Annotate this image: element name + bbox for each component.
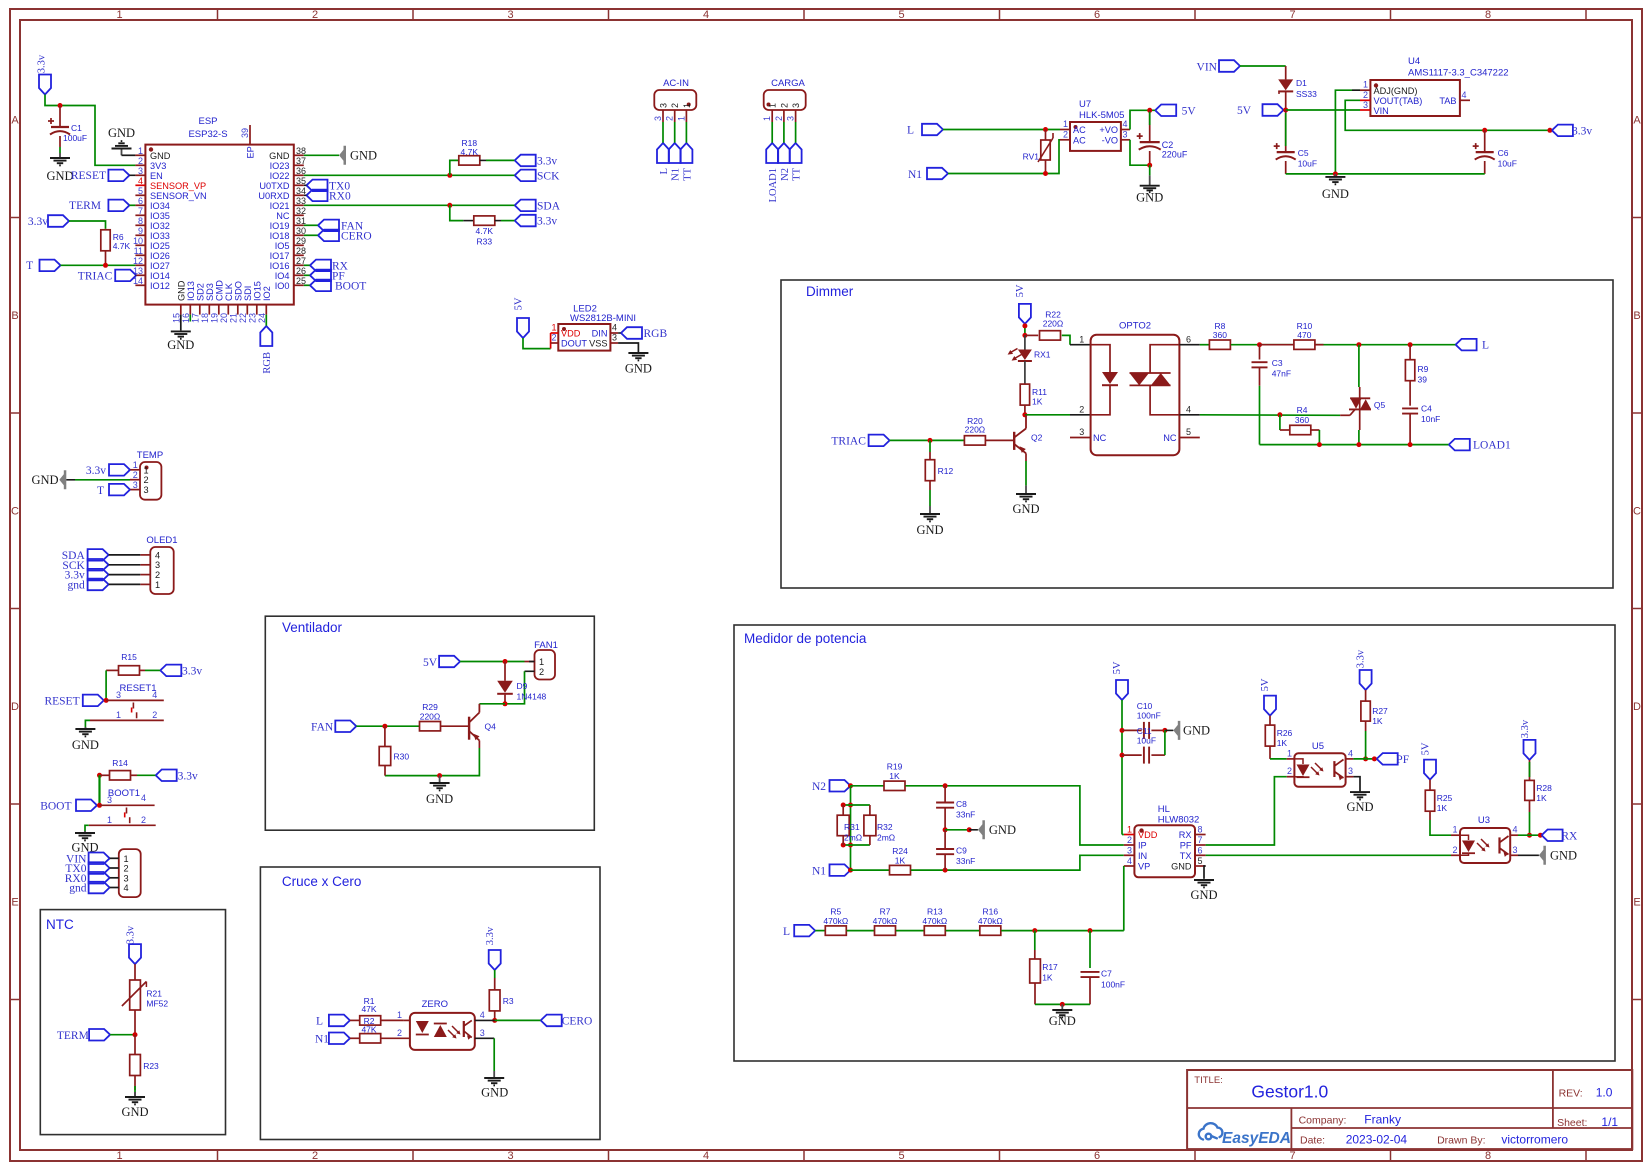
transistor Q4 NPN <box>441 725 469 727</box>
node junction <box>1120 753 1125 758</box>
svg-text:R17: R17 <box>1042 962 1058 972</box>
resistor R24 1K <box>890 865 911 874</box>
svg-text:4.7K: 4.7K <box>461 147 479 157</box>
svg-text:IO35: IO35 <box>150 211 170 221</box>
svg-text:OPTO2: OPTO2 <box>1119 321 1151 332</box>
section box Ventilador <box>265 616 594 830</box>
svg-text:17: 17 <box>190 313 200 323</box>
svg-text:NC: NC <box>1093 433 1107 443</box>
wire SDA <box>304 204 515 206</box>
wire <box>110 1034 135 1036</box>
svg-text:3: 3 <box>107 795 112 805</box>
svg-text:35: 35 <box>296 176 306 186</box>
ESP pin 37 IO23 <box>294 164 304 166</box>
svg-text:RX1: RX1 <box>1034 350 1051 360</box>
section box Cruce x Cero <box>260 867 600 1140</box>
svg-text:4.7K: 4.7K <box>476 226 494 236</box>
svg-text:VSS: VSS <box>589 339 607 349</box>
svg-text:U4: U4 <box>1408 56 1420 67</box>
svg-text:ESP: ESP <box>198 116 217 127</box>
node junction <box>848 783 853 788</box>
svg-text:D1: D1 <box>1296 78 1307 88</box>
svg-text:AC-IN: AC-IN <box>663 78 689 89</box>
svg-text:TERM: TERM <box>69 200 101 212</box>
svg-text:33nF: 33nF <box>956 810 975 820</box>
svg-text:SDI: SDI <box>243 286 253 301</box>
ESP pin 22 SDI <box>246 305 248 315</box>
svg-text:1: 1 <box>397 1010 402 1020</box>
svg-text:3.3v: 3.3v <box>86 465 106 477</box>
svg-text:23: 23 <box>247 313 257 323</box>
svg-text:TRIAC: TRIAC <box>78 270 113 282</box>
node junction <box>1283 108 1288 113</box>
node junction <box>928 438 933 443</box>
svg-text:47K: 47K <box>361 1004 376 1014</box>
svg-text:2mΩ: 2mΩ <box>844 833 862 843</box>
svg-text:3.3v: 3.3v <box>28 216 48 228</box>
wire <box>1353 758 1374 760</box>
svg-text:U3: U3 <box>1478 815 1490 826</box>
U5 internal LED <box>1294 759 1303 764</box>
OLED1 pin 2 3.3v <box>140 574 150 576</box>
node junction <box>1277 412 1282 417</box>
node junction <box>1120 728 1125 733</box>
svg-text:1K: 1K <box>1536 793 1547 803</box>
net flag CERO <box>541 1015 562 1027</box>
svg-text:7: 7 <box>138 206 143 216</box>
svg-text:2: 2 <box>138 156 143 166</box>
svg-text:100uF: 100uF <box>63 133 87 143</box>
svg-text:GND: GND <box>46 169 73 183</box>
power flag 3.3v <box>1552 125 1573 137</box>
svg-text:4: 4 <box>141 793 146 803</box>
resistor R28 1K <box>1529 760 1531 781</box>
svg-text:3: 3 <box>138 166 143 176</box>
wire <box>851 869 890 871</box>
svg-text:GND: GND <box>481 1086 508 1100</box>
ESP pin 21 SDO <box>237 305 239 315</box>
svg-text:1: 1 <box>124 854 129 864</box>
power flag RGB <box>260 326 272 346</box>
svg-text:R26: R26 <box>1277 728 1293 738</box>
svg-text:Medidor de potencia: Medidor de potencia <box>744 631 867 646</box>
power flag 3.3v at R27 <box>1360 670 1372 690</box>
wire <box>1025 453 1027 461</box>
svg-text:1K: 1K <box>1277 738 1288 748</box>
U5 pin 4 <box>1346 758 1354 760</box>
svg-text:1: 1 <box>1079 335 1084 345</box>
node junction <box>104 698 109 703</box>
HL pin 2 IP <box>1124 844 1135 846</box>
svg-text:5: 5 <box>898 9 904 21</box>
power flag 5V <box>517 318 529 338</box>
svg-text:3: 3 <box>507 9 513 21</box>
svg-text:2: 2 <box>670 103 680 108</box>
net flag N1 <box>669 143 681 163</box>
svg-text:C11: C11 <box>1137 726 1152 736</box>
HL pin 7 PF <box>1195 844 1206 846</box>
svg-text:3: 3 <box>1513 845 1518 855</box>
svg-text:5V: 5V <box>514 297 525 310</box>
svg-text:CARGA: CARGA <box>771 78 805 89</box>
svg-text:470kΩ: 470kΩ <box>873 916 898 926</box>
capacitor C1 <box>59 106 61 128</box>
U7 pin 3 -VO <box>1121 139 1130 141</box>
FAN1 pin 1 <box>525 661 535 663</box>
OLED1 pin 1 gnd <box>140 583 150 585</box>
svg-text:6: 6 <box>1186 335 1191 345</box>
svg-text:PF: PF <box>1180 841 1192 851</box>
U5 pin 1 <box>1287 758 1295 760</box>
svg-text:DOUT: DOUT <box>561 339 587 349</box>
ground flag GND gray <box>1173 721 1180 740</box>
svg-text:3: 3 <box>155 560 160 570</box>
triac Q5 <box>1340 414 1350 416</box>
svg-text:4: 4 <box>1513 825 1518 835</box>
power flag 5V at R26 <box>1264 696 1276 716</box>
U3 pin3 ground flag <box>1518 854 1539 856</box>
svg-text:RX: RX <box>1561 830 1578 842</box>
svg-text:4.7K: 4.7K <box>113 241 131 251</box>
wire <box>1121 700 1123 835</box>
svg-text:5V: 5V <box>1015 284 1026 297</box>
node junction <box>1408 342 1413 347</box>
svg-text:RESET: RESET <box>44 695 79 707</box>
node junction <box>1333 171 1338 176</box>
U7 pin 4 +VO <box>1121 129 1130 131</box>
svg-text:E: E <box>11 897 18 909</box>
LED2 pin 3 VSS <box>610 342 618 344</box>
svg-text:3.3v: 3.3v <box>126 925 137 944</box>
resistor R2 47K <box>350 1019 360 1021</box>
svg-text:AC: AC <box>1073 125 1086 135</box>
svg-text:5V: 5V <box>1260 678 1271 691</box>
svg-text:3: 3 <box>1363 100 1368 110</box>
svg-text:2: 2 <box>152 710 157 720</box>
svg-text:R19: R19 <box>887 762 903 772</box>
svg-text:2: 2 <box>665 116 675 121</box>
svg-text:GND: GND <box>269 151 290 161</box>
transistor Q2 NPN <box>1013 432 1015 450</box>
node junction <box>382 724 387 729</box>
svg-text:N2: N2 <box>780 168 791 181</box>
wire VOUT to 3.3v rail <box>1345 100 1550 130</box>
svg-text:4: 4 <box>612 323 617 333</box>
svg-text:AC: AC <box>1073 135 1086 145</box>
net flag L <box>1456 339 1477 351</box>
svg-text:GND: GND <box>426 792 453 806</box>
resistor R26 1K <box>1269 716 1271 726</box>
svg-text:1: 1 <box>144 465 149 475</box>
svg-text:R30: R30 <box>394 752 410 762</box>
svg-text:IO22: IO22 <box>270 171 290 181</box>
resistor R8 360 <box>1209 340 1230 349</box>
svg-text:R28: R28 <box>1536 783 1552 793</box>
svg-text:4: 4 <box>703 1150 709 1162</box>
svg-text:470kΩ: 470kΩ <box>922 916 947 926</box>
svg-text:100nF: 100nF <box>1101 980 1125 990</box>
svg-text:GND: GND <box>1136 191 1163 205</box>
resistor R12 <box>929 440 931 452</box>
svg-text:TRIAC: TRIAC <box>831 436 866 448</box>
svg-text:Cruce x Cero: Cruce x Cero <box>282 874 362 889</box>
svg-text:R24: R24 <box>892 846 908 856</box>
svg-text:2: 2 <box>779 103 789 108</box>
svg-text:IO15: IO15 <box>252 281 262 301</box>
TEMP pin 3 <box>130 489 140 491</box>
svg-text:30: 30 <box>296 226 306 236</box>
svg-text:360: 360 <box>1295 415 1309 425</box>
svg-text:2: 2 <box>124 864 129 874</box>
ground <box>134 1092 136 1097</box>
node junction <box>1408 442 1413 447</box>
svg-text:IO14: IO14 <box>150 271 170 281</box>
svg-text:5: 5 <box>1198 856 1203 866</box>
ESP pin 33 IO21 <box>294 204 304 206</box>
wire <box>304 154 339 156</box>
section box Medidor de potencia <box>734 625 1615 1061</box>
wire <box>851 785 884 787</box>
svg-text:39: 39 <box>1418 375 1428 385</box>
svg-text:IO21: IO21 <box>270 201 290 211</box>
svg-text:IO5: IO5 <box>275 241 290 251</box>
svg-text:REV:: REV: <box>1559 1088 1583 1100</box>
svg-text:34: 34 <box>296 186 306 196</box>
svg-text:7: 7 <box>1289 9 1295 21</box>
U3 pin 4 <box>1510 834 1518 836</box>
svg-text:IO23: IO23 <box>270 161 290 171</box>
wire <box>943 129 1060 131</box>
svg-text:SDO: SDO <box>233 281 243 301</box>
svg-text:3.3v: 3.3v <box>1356 649 1367 668</box>
ground <box>1061 1004 1063 1008</box>
svg-text:8: 8 <box>138 216 143 226</box>
svg-text:L: L <box>907 125 914 137</box>
svg-text:R33: R33 <box>477 237 493 247</box>
svg-text:GND: GND <box>121 1105 148 1119</box>
svg-text:3.3v: 3.3v <box>37 54 48 73</box>
power flag 3.3v <box>515 155 536 167</box>
svg-text:39: 39 <box>240 128 250 138</box>
svg-text:R32: R32 <box>877 822 893 832</box>
ESP pin 36 IO22 <box>294 174 304 176</box>
svg-text:N1: N1 <box>671 168 682 181</box>
svg-text:SD2: SD2 <box>195 283 205 301</box>
svg-text:GND: GND <box>32 473 59 487</box>
ESP pin 19 CMD <box>218 305 220 315</box>
svg-text:IP: IP <box>1138 841 1147 851</box>
ground <box>1334 174 1336 177</box>
svg-text:EN: EN <box>150 171 163 181</box>
svg-text:GND: GND <box>1183 724 1210 738</box>
svg-text:6: 6 <box>1094 9 1100 21</box>
wire PF <box>1206 777 1287 845</box>
node junction <box>447 173 452 178</box>
HL pin 6 TX <box>1195 854 1206 856</box>
svg-text:GND: GND <box>625 362 652 376</box>
svg-text:TT: TT <box>792 167 803 180</box>
svg-text:2: 2 <box>144 475 149 485</box>
svg-text:3V3: 3V3 <box>150 161 166 171</box>
svg-text:R11: R11 <box>1032 387 1047 397</box>
node junction <box>1317 442 1322 447</box>
svg-text:3: 3 <box>144 485 149 495</box>
U7 pin 1 AC <box>1060 129 1070 131</box>
svg-text:TEMP: TEMP <box>137 450 163 461</box>
svg-text:33nF: 33nF <box>956 856 975 866</box>
ground <box>1149 165 1151 175</box>
svg-text:3: 3 <box>507 1150 513 1162</box>
svg-text:220Ω: 220Ω <box>965 425 986 435</box>
node junction <box>1257 342 1262 347</box>
svg-text:CERO: CERO <box>562 1015 593 1027</box>
wire <box>890 439 965 441</box>
svg-text:IO19: IO19 <box>270 221 290 231</box>
svg-text:LOAD1: LOAD1 <box>768 168 779 202</box>
svg-text:C7: C7 <box>1101 969 1112 979</box>
U3 pin 3 <box>1510 854 1518 856</box>
TEMP pin 1 <box>130 469 140 471</box>
net flag FAN <box>304 224 318 226</box>
svg-text:GND: GND <box>1049 1014 1076 1028</box>
svg-text:R9: R9 <box>1418 364 1429 374</box>
svg-text:2: 2 <box>774 116 784 121</box>
U5 pin3 ground <box>1353 777 1360 791</box>
node junction <box>1162 728 1167 733</box>
svg-text:25: 25 <box>296 276 306 286</box>
HL pin 5 GND <box>1195 865 1206 867</box>
svg-text:N1: N1 <box>812 865 826 877</box>
wire <box>493 1038 495 1071</box>
svg-text:C3: C3 <box>1272 358 1283 368</box>
ESP pin 6 IO34 <box>135 204 145 206</box>
svg-text:A: A <box>11 115 19 127</box>
svg-text:GND: GND <box>1346 800 1373 814</box>
R31 R32 parallel wires <box>850 786 852 870</box>
svg-text:2: 2 <box>1079 405 1084 415</box>
wire pin4 row <box>1179 414 1199 416</box>
svg-text:GND: GND <box>176 280 186 301</box>
svg-text:2: 2 <box>1127 835 1132 845</box>
svg-text:R13: R13 <box>927 907 943 917</box>
wire <box>946 930 980 932</box>
FAN1 pin 2 <box>525 670 535 672</box>
wire <box>945 829 969 831</box>
svg-text:CLK: CLK <box>224 282 234 301</box>
svg-text:U0RXD: U0RXD <box>258 191 290 201</box>
ESP pin 38 GND <box>294 154 304 156</box>
svg-text:5V: 5V <box>1182 105 1197 117</box>
svg-text:IO18: IO18 <box>270 231 290 241</box>
svg-text:3.3v: 3.3v <box>1572 125 1592 137</box>
ESP pin 16 IO13 <box>189 305 191 315</box>
svg-text:IO2: IO2 <box>262 286 272 301</box>
svg-text:B: B <box>11 310 18 322</box>
svg-text:RESET1: RESET1 <box>120 683 157 694</box>
node junction <box>1356 342 1361 347</box>
wire <box>1286 109 1360 111</box>
wire <box>1130 140 1150 165</box>
svg-text:4: 4 <box>1123 119 1128 129</box>
svg-text:4: 4 <box>1462 90 1467 100</box>
svg-text:GND: GND <box>150 151 171 161</box>
svg-text:220Ω: 220Ω <box>1043 319 1064 329</box>
resistor R9 39 <box>1409 345 1411 360</box>
svg-text:gnd: gnd <box>68 579 86 591</box>
svg-text:Date:: Date: <box>1300 1135 1325 1147</box>
OLED1 pin 3 SCK <box>140 564 150 566</box>
node junction <box>1147 108 1152 113</box>
svg-text:RX0: RX0 <box>329 190 351 202</box>
power flag 5V <box>1155 105 1176 117</box>
svg-text:10nF: 10nF <box>1421 414 1440 424</box>
svg-text:IN: IN <box>1138 851 1147 861</box>
svg-text:10uF: 10uF <box>1498 159 1517 169</box>
wire <box>98 775 100 805</box>
svg-text:IO16: IO16 <box>270 261 290 271</box>
svg-text:10uF: 10uF <box>1298 159 1317 169</box>
wire <box>85 825 89 831</box>
power flag 3.3v <box>160 665 181 677</box>
svg-text:U0TXD: U0TXD <box>259 181 289 191</box>
svg-text:E: E <box>1633 897 1640 909</box>
resistor R33 4.7K <box>474 216 495 225</box>
ESP pin 1 GND <box>135 154 145 156</box>
node junction <box>58 103 63 108</box>
ESP pin 29 IO5 <box>294 244 304 246</box>
svg-text:4: 4 <box>152 690 157 700</box>
wire <box>1518 834 1540 836</box>
ESP pin 34 U0RXD <box>294 194 304 196</box>
svg-text:L: L <box>316 1015 323 1027</box>
node junction <box>492 1018 497 1023</box>
node junction <box>1022 412 1027 417</box>
node junction <box>97 803 102 808</box>
svg-text:8: 8 <box>1485 9 1491 21</box>
net flag SDA <box>515 200 536 212</box>
wire <box>948 140 1060 174</box>
svg-text:20: 20 <box>219 313 229 323</box>
svg-text:6: 6 <box>1198 845 1203 855</box>
HL pin 8 RX <box>1195 834 1206 836</box>
ground <box>1025 485 1027 492</box>
svg-text:Company:: Company: <box>1299 1115 1347 1127</box>
svg-text:1: 1 <box>1363 80 1368 90</box>
svg-text:SS33: SS33 <box>1296 89 1317 99</box>
OPTO2 internal LED <box>1091 345 1110 372</box>
svg-text:GND: GND <box>916 523 943 537</box>
capacitor C5 10uF <box>1285 110 1287 152</box>
svg-text:1: 1 <box>107 815 112 825</box>
svg-text:1K: 1K <box>895 855 906 865</box>
svg-text:37: 37 <box>296 156 306 166</box>
wire <box>896 930 924 932</box>
resistor R5 470k <box>825 926 846 935</box>
wire VDD <box>1122 834 1124 836</box>
svg-text:N1: N1 <box>908 169 922 181</box>
svg-text:470: 470 <box>1297 330 1311 340</box>
ESP pin 8 IO32 <box>135 224 145 226</box>
resistor R4 360 <box>1279 415 1281 430</box>
node junction <box>1547 128 1552 133</box>
wire VP down to divider <box>1123 866 1125 931</box>
svg-text:8: 8 <box>1485 1150 1491 1162</box>
svg-text:31: 31 <box>296 216 306 226</box>
svg-text:1K: 1K <box>889 771 900 781</box>
ESP pin 4 SENSOR_VP <box>135 184 145 186</box>
svg-text:IO25: IO25 <box>150 241 170 251</box>
svg-text:470kΩ: 470kΩ <box>978 916 1003 926</box>
